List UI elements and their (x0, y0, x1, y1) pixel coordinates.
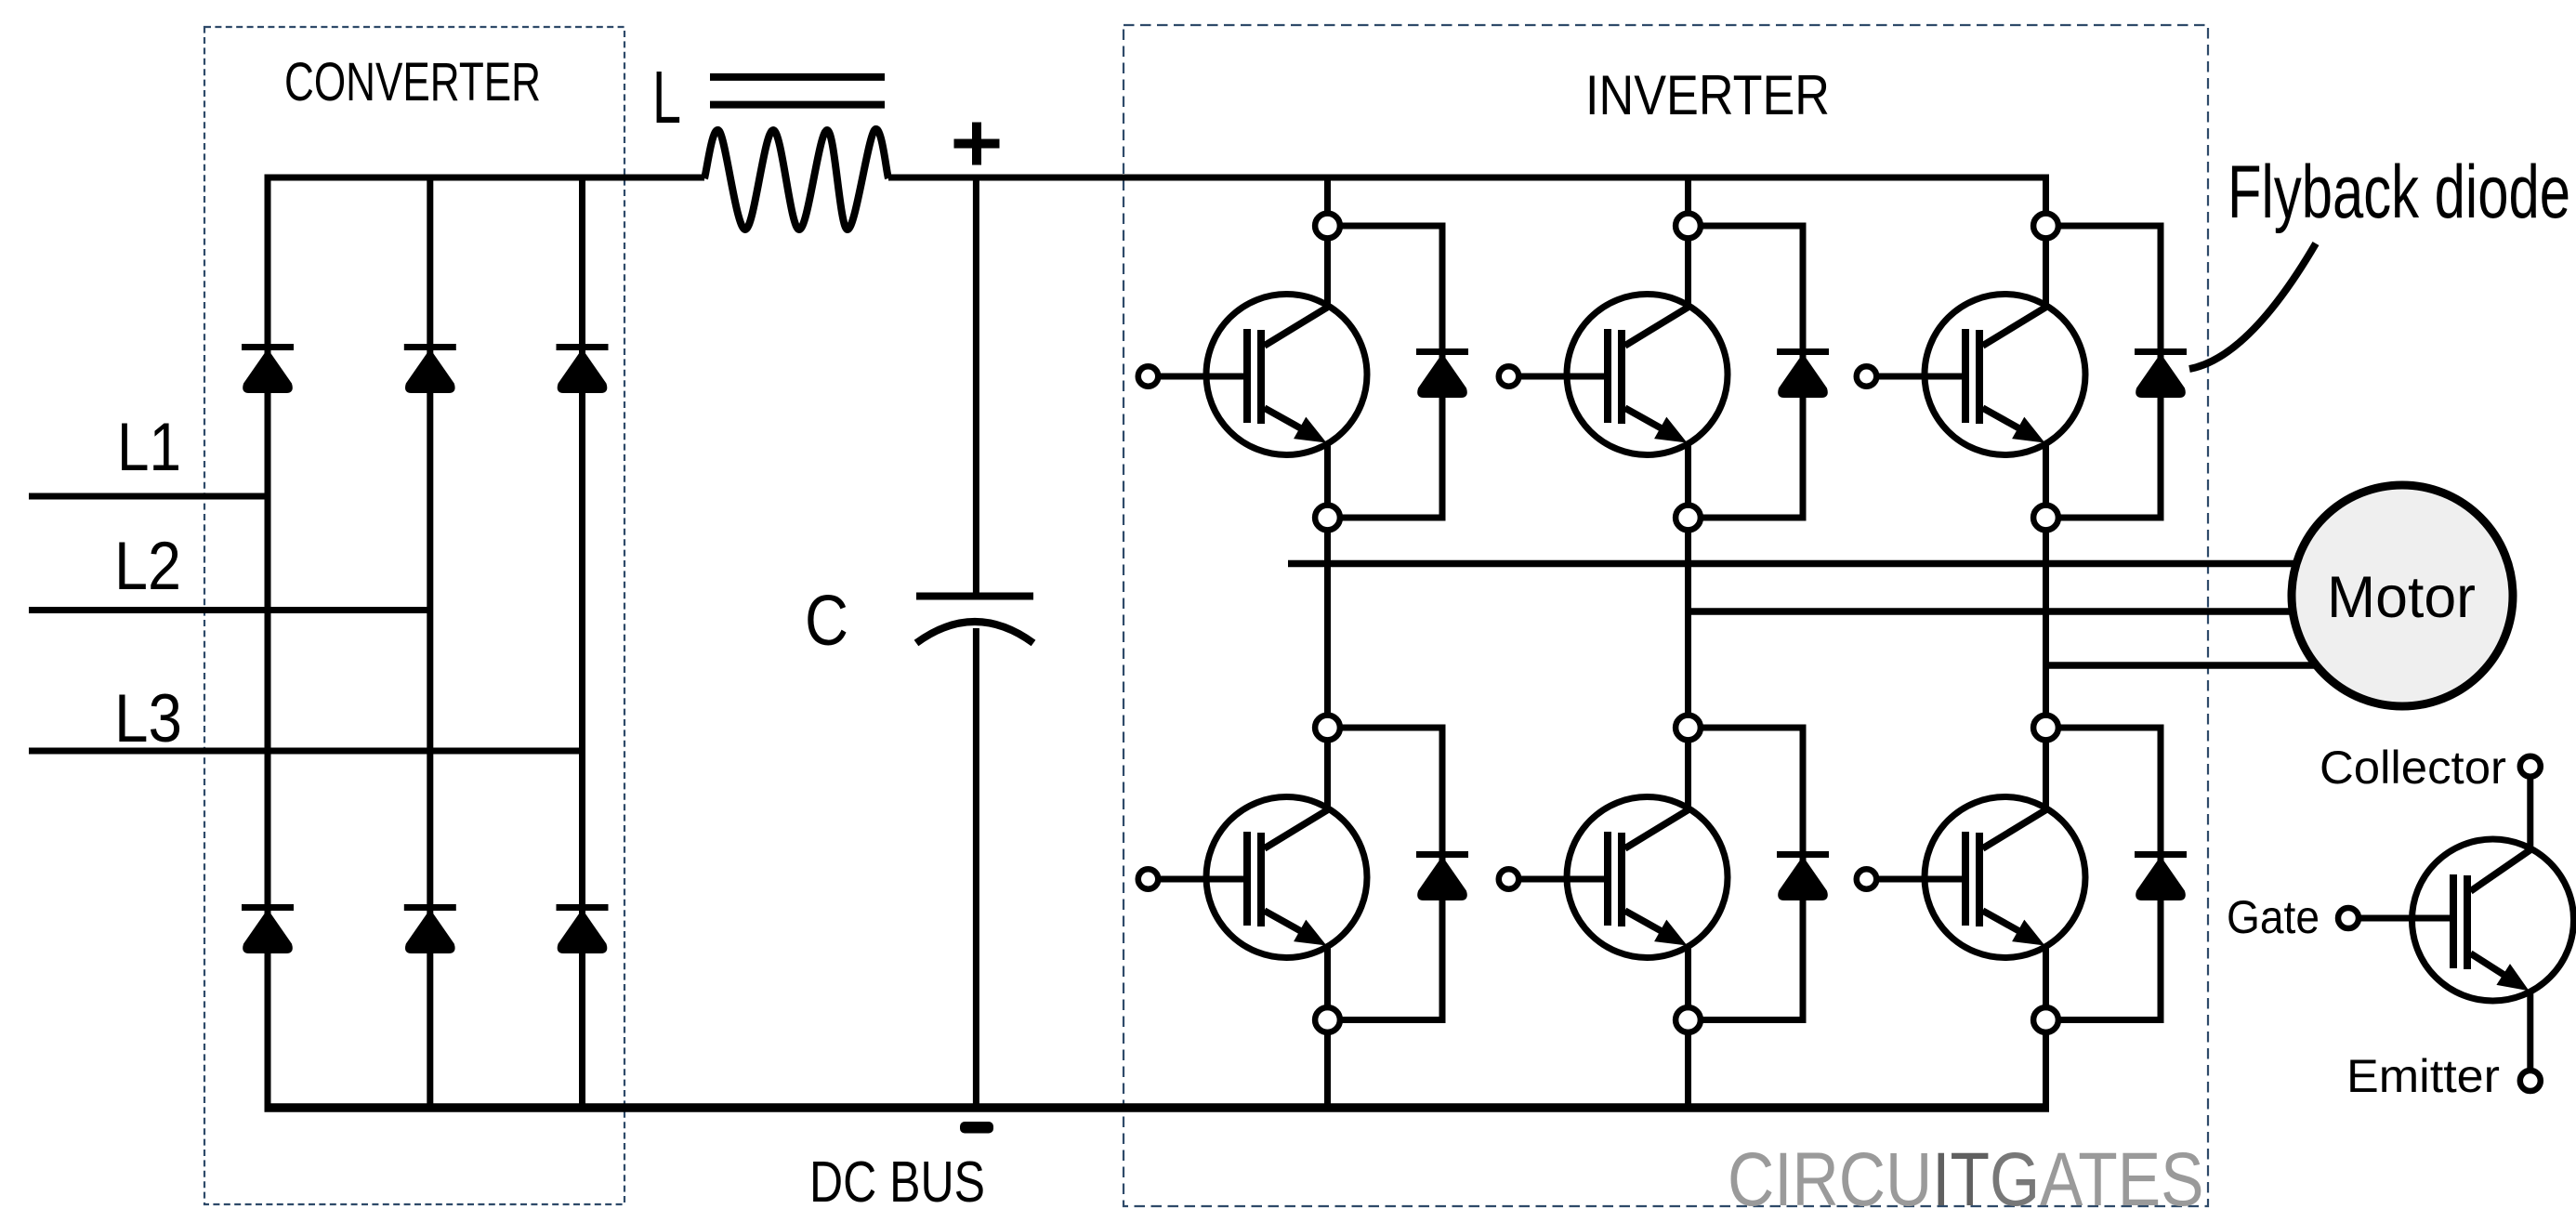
minus sign DC bus polarity (960, 1122, 993, 1134)
capacitor C bottom lead (973, 628, 979, 1108)
inverter block dashed boundary (1124, 25, 2208, 1206)
wire flyback diode bottom stub Q2 (1699, 515, 1807, 521)
wire emitter to node Q6 (2043, 944, 2049, 1009)
svg-text:Motor: Motor (2327, 565, 2476, 630)
wire collector lead Q3 (2043, 177, 2049, 216)
wire input L3 (29, 748, 583, 755)
wire phase W output (2045, 662, 2318, 669)
wire flyback diode top stub Q4 (1338, 725, 1446, 731)
wire flyback diode vertical Q3 (2158, 223, 2164, 521)
wire gate lead Q4 (1159, 876, 1248, 883)
wire phase U output (1288, 560, 2297, 568)
wire input L1 (29, 493, 268, 500)
wire flyback diode bottom stub Q5 (1699, 1017, 1807, 1023)
wire node to transistor Q2 (1685, 236, 1691, 307)
wire flyback diode bottom stub Q6 (2057, 1017, 2164, 1023)
node emitter terminal Q4 (1315, 1007, 1340, 1032)
wire emitter to node Q4 (1324, 944, 1331, 1009)
transistor Q1 IGBT (1206, 295, 1367, 455)
wire flyback diode vertical Q4 (1439, 725, 1446, 1024)
diode flyback FD6 (2135, 851, 2187, 858)
transistor Q3 IGBT (1925, 295, 2085, 455)
wire flyback diode top stub Q5 (1699, 725, 1807, 731)
svg-text:L2: L2 (114, 529, 181, 604)
wire emitter lead (legend) (2527, 990, 2533, 1071)
diode D1 converter top (242, 344, 294, 350)
wire phase V output (1689, 608, 2294, 615)
wire input L2 (29, 607, 430, 613)
diode D5 converter bottom (404, 904, 456, 911)
wire DC+ top bus (right of inductor) (888, 175, 2049, 181)
inductor L core bar 2 (710, 101, 885, 109)
wire gate lead Q2 (1519, 374, 1609, 380)
wire collector lead Q5 (1685, 530, 1691, 717)
svg-text:L1: L1 (117, 410, 181, 485)
plus sign DC bus polarity (954, 139, 1000, 149)
node collector terminal Q3 (2033, 214, 2058, 239)
node gate terminal (legend) (2338, 908, 2359, 928)
node emitter terminal (legend) (2520, 1071, 2541, 1091)
node emitter terminal Q6 (2033, 1007, 2058, 1032)
motor M (2292, 485, 2513, 706)
diode D3 converter top (557, 344, 609, 350)
node gate terminal Q2 (1499, 366, 1519, 387)
wire gate lead Q3 (1877, 374, 1966, 380)
node emitter terminal Q2 (1676, 506, 1701, 531)
diode flyback FD4 (1416, 851, 1468, 858)
wire flyback diode vertical Q6 (2158, 725, 2164, 1024)
wire flyback diode top stub Q2 (1699, 223, 1807, 230)
wire flyback diode top stub Q3 (2057, 223, 2164, 230)
diode flyback FD3 (2135, 348, 2187, 355)
wire flyback diode top stub Q1 (1338, 223, 1446, 230)
wire node to transistor Q6 (2043, 738, 2049, 809)
wire emitter to node Q5 (1685, 944, 1691, 1009)
wire gate lead Q6 (1877, 876, 1966, 883)
transistor Q2 IGBT (1567, 295, 1728, 455)
wire collector lead Q2 (1685, 177, 1691, 216)
wire flyback diode bottom stub Q1 (1338, 515, 1446, 521)
svg-text:CIRCUITGATES: CIRCUITGATES (1728, 1137, 2204, 1222)
wire node to transistor Q4 (1324, 738, 1331, 809)
callout curve to flyback diode (2189, 243, 2316, 369)
node collector terminal (legend) (2520, 756, 2541, 777)
wire collector lead Q6 (2043, 530, 2049, 717)
capacitor C top plate (916, 593, 1033, 600)
wire emitter to node Q1 (1324, 441, 1331, 506)
wire emitter node to DC- bus Q4 (1324, 1031, 1331, 1108)
wire converter leg 1 vertical (265, 177, 271, 1108)
svg-text:L: L (652, 56, 681, 138)
node collector terminal Q6 (2033, 716, 2058, 741)
wire flyback diode bottom stub Q4 (1338, 1017, 1446, 1023)
node gate terminal Q3 (1857, 366, 1877, 387)
capacitor C bottom curved plate (916, 622, 1033, 643)
node emitter terminal Q5 (1676, 1007, 1701, 1032)
node gate terminal Q1 (1138, 366, 1159, 387)
wire node to transistor Q1 (1324, 236, 1331, 307)
svg-text:CONVERTER: CONVERTER (284, 52, 541, 112)
wire emitter node to DC- bus Q5 (1685, 1031, 1691, 1108)
wire emitter to node Q3 (2043, 441, 2049, 506)
diode flyback FD2 (1777, 348, 1829, 355)
node collector terminal Q5 (1676, 716, 1701, 741)
capacitor C top lead (973, 177, 979, 593)
node collector terminal Q2 (1676, 214, 1701, 239)
diode flyback FD1 (1416, 348, 1468, 355)
wire gate lead Q1 (1159, 374, 1248, 380)
svg-text:Emitter: Emitter (2346, 1050, 2500, 1102)
inductor L coil (704, 129, 888, 230)
node emitter terminal Q3 (2033, 506, 2058, 531)
node gate terminal Q5 (1499, 869, 1519, 889)
svg-text:Collector: Collector (2320, 742, 2506, 794)
svg-text:Flyback diode: Flyback diode (2228, 151, 2570, 234)
transistor IGBT (legend) (2412, 839, 2574, 1001)
diode flyback FD5 (1777, 851, 1829, 858)
wire collector lead Q4 (1324, 530, 1331, 717)
wire gate lead Q5 (1519, 876, 1609, 883)
wire node to transistor Q3 (2043, 236, 2049, 307)
wire flyback diode vertical Q5 (1800, 725, 1807, 1024)
diode D2 converter top (404, 344, 456, 350)
svg-text:DC BUS: DC BUS (809, 1150, 985, 1215)
wire collector lead (legend) (2527, 777, 2533, 850)
diode D6 converter bottom (557, 904, 609, 911)
node collector terminal Q1 (1315, 214, 1340, 239)
wire flyback diode vertical Q2 (1800, 223, 1807, 521)
node gate terminal Q4 (1138, 869, 1159, 889)
node gate terminal Q6 (1857, 869, 1877, 889)
wire gate lead (legend) (2359, 915, 2453, 922)
wire flyback diode bottom stub Q3 (2057, 515, 2164, 521)
svg-text:C: C (805, 581, 848, 661)
wire emitter to node Q2 (1685, 441, 1691, 506)
wire DC- bottom bus (265, 1103, 2050, 1112)
svg-text:INVERTER: INVERTER (1585, 64, 1830, 126)
wire collector lead Q1 (1324, 177, 1331, 216)
svg-text:Gate: Gate (2227, 891, 2320, 943)
svg-text:L3: L3 (114, 681, 182, 756)
converter block dashed boundary (204, 27, 624, 1204)
wire converter leg 2 vertical (427, 177, 433, 1108)
wire flyback diode top stub Q6 (2057, 725, 2164, 731)
transistor Q4 IGBT (1206, 797, 1367, 958)
node emitter terminal Q1 (1315, 506, 1340, 531)
wire emitter node to DC- bus Q6 (2043, 1031, 2049, 1108)
transistor Q6 IGBT (1925, 797, 2085, 958)
wire node to transistor Q5 (1685, 738, 1691, 809)
node collector terminal Q4 (1315, 716, 1340, 741)
inductor L core bar 1 (710, 73, 885, 81)
wire converter leg 3 vertical (579, 177, 585, 1108)
transistor Q5 IGBT (1567, 797, 1728, 958)
wire flyback diode vertical Q1 (1439, 223, 1446, 521)
diode D4 converter bottom (242, 904, 294, 911)
wire DC+ top bus (left of inductor) (265, 175, 705, 181)
